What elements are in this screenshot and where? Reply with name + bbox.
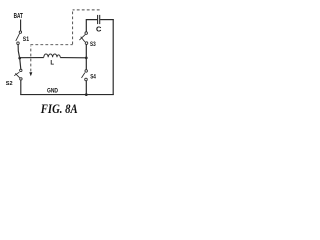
- svg-text:S2: S2: [6, 81, 13, 87]
- switch S3: [79, 32, 87, 45]
- inductor L: [44, 54, 60, 57]
- wire node A to inductor: [20, 57, 44, 59]
- svg-text:S3: S3: [90, 42, 96, 48]
- svg-text:C: C: [96, 24, 102, 33]
- svg-text:L: L: [50, 60, 54, 66]
- wire capacitor to right rail: [100, 19, 114, 21]
- svg-text:BAT: BAT: [14, 13, 24, 20]
- wire node A to S2: [20, 58, 21, 69]
- dashed linkage: top horizontal segment: [73, 9, 100, 11]
- capacitor C plates: [97, 15, 99, 24]
- node B junction: [85, 57, 88, 60]
- svg-text:FIG. 8A: FIG. 8A: [40, 102, 78, 116]
- switch S2: [14, 69, 22, 80]
- wire inductor to node B: [60, 57, 86, 59]
- wire battery lead: [20, 20, 22, 31]
- svg-text:GND: GND: [47, 88, 58, 95]
- wire node B up to S3: [85, 45, 87, 58]
- switch S4: [82, 70, 88, 81]
- node A junction: [18, 57, 21, 60]
- dashed linkage arrowhead: [29, 72, 32, 76]
- dashed linkage: horizontal mid segment: [30, 44, 72, 46]
- right rail wire: [112, 19, 114, 95]
- dashed linkage: left vertical segment: [30, 46, 32, 72]
- dashed linkage: right vertical segment: [72, 10, 74, 44]
- switch S1: [16, 31, 22, 45]
- wire S4 to ground rail: [85, 81, 87, 95]
- wire node B down to S4: [85, 58, 87, 70]
- svg-text:S4: S4: [90, 74, 96, 80]
- node C junction: [85, 93, 88, 96]
- ground rail wire: [20, 94, 114, 96]
- wire S3 up to capacitor: [86, 20, 97, 32]
- wire S2 to ground rail: [20, 80, 22, 95]
- wire S1 to node A: [18, 45, 20, 58]
- svg-text:S1: S1: [23, 36, 30, 43]
